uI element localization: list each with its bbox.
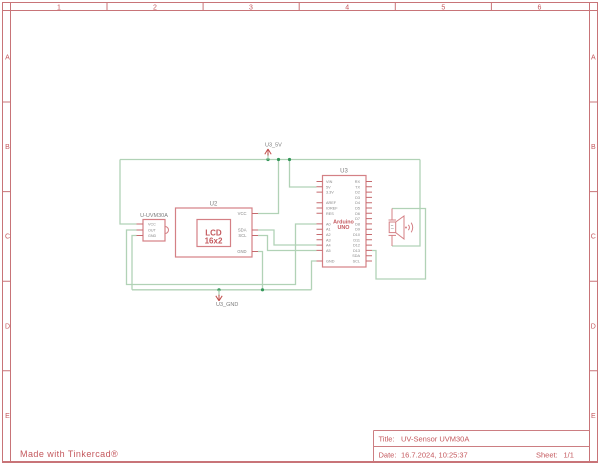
wire rail to U1 VCC: [120, 160, 137, 225]
svg-text:U3: U3: [340, 169, 348, 175]
svg-text:1: 1: [57, 5, 61, 12]
svg-text:D12: D12: [353, 244, 360, 248]
svg-text:D8: D8: [355, 222, 360, 226]
wire U1 GND to GND rail: [132, 236, 137, 290]
svg-text:3: 3: [249, 5, 253, 12]
wire speaker top pin to U3 D13: [372, 209, 426, 280]
svg-text:GND: GND: [237, 249, 246, 254]
svg-text:RES: RES: [326, 212, 334, 216]
LCD U2 (LCD 16x2): [176, 202, 259, 258]
svg-text:D5: D5: [355, 207, 360, 211]
svg-text:5: 5: [441, 5, 445, 12]
svg-text:A: A: [5, 55, 10, 62]
U3 right pin labels: [352, 180, 360, 264]
svg-text:SDA: SDA: [238, 228, 247, 233]
svg-text:C: C: [591, 234, 596, 241]
svg-text:E: E: [5, 413, 10, 420]
wire U3 GND to GND rail: [312, 261, 317, 290]
svg-text:A2: A2: [326, 233, 331, 237]
junction node on 5V rail at power arrow: [266, 158, 269, 161]
svg-text:Title:: Title:: [379, 435, 395, 444]
svg-text:U2: U2: [210, 202, 218, 208]
U1 body: [143, 220, 165, 242]
junction node on GND rail at ground arrow: [217, 288, 220, 291]
U3 right pin leads: [366, 182, 372, 262]
svg-text:D: D: [5, 323, 10, 330]
wire U2 SDA to U3 A4: [258, 230, 317, 245]
svg-text:1/1: 1/1: [564, 451, 574, 460]
svg-text:2: 2: [153, 5, 157, 12]
svg-text:D3: D3: [355, 196, 360, 200]
svg-text:C: C: [5, 234, 10, 241]
U3 left pin leads: [317, 182, 323, 262]
svg-text:16.7.2024, 10:25:37: 16.7.2024, 10:25:37: [401, 451, 468, 460]
svg-text:D13: D13: [353, 249, 360, 253]
svg-text:6: 6: [537, 5, 541, 12]
wire rail to U3 5V: [290, 160, 317, 188]
svg-text:SCL: SCL: [353, 260, 360, 264]
svg-text:Date:: Date:: [379, 451, 397, 460]
wire GND rail: [132, 289, 312, 291]
junction node on 5V rail at U2 VCC drop: [277, 158, 280, 161]
svg-text:A5: A5: [326, 249, 331, 253]
svg-text:IOREF: IOREF: [326, 207, 338, 211]
svg-text:D11: D11: [353, 238, 360, 242]
junction node on 5V rail at U3 5V drop: [288, 158, 291, 161]
svg-text:D6: D6: [355, 212, 360, 216]
svg-text:5V: 5V: [326, 185, 331, 189]
wire U1 OUT to U3 A0: [127, 224, 317, 285]
svg-text:D: D: [591, 323, 596, 330]
svg-text:VCC: VCC: [238, 211, 247, 216]
wire 5V rail: [120, 159, 420, 161]
svg-text:GND: GND: [148, 234, 157, 238]
U2 pin leads VCC/SDA/SCL/GND: [252, 214, 258, 252]
U3 left pin labels: [326, 180, 338, 264]
junction node on GND rail at U2 GND drop: [261, 288, 264, 291]
svg-text:UNO: UNO: [338, 225, 350, 231]
svg-text:GND: GND: [326, 260, 335, 264]
svg-text:U-UVM30A: U-UVM30A: [140, 213, 168, 219]
svg-text:D7: D7: [355, 217, 360, 221]
U1 pin leads VCC/OUT/GND: [137, 224, 144, 236]
wire rail to U2 VCC: [258, 160, 279, 214]
U3 body: [323, 176, 367, 268]
svg-text:16x2: 16x2: [205, 237, 223, 246]
svg-text:TX: TX: [355, 185, 360, 189]
svg-text:A4: A4: [326, 244, 331, 248]
svg-text:OUT: OUT: [148, 229, 157, 233]
U1 pin labels: [148, 223, 157, 239]
svg-text:SDA: SDA: [352, 254, 360, 258]
svg-text:SCL: SCL: [238, 233, 247, 238]
U2 pin labels: [237, 211, 247, 254]
svg-text:3.3V: 3.3V: [326, 191, 334, 195]
svg-text:4: 4: [345, 5, 349, 12]
svg-text:A: A: [591, 55, 596, 62]
svg-text:A1: A1: [326, 228, 331, 232]
UV sensor U1 (U-UVM30A): [137, 213, 169, 241]
svg-text:D4: D4: [355, 201, 360, 205]
svg-text:A3: A3: [326, 238, 331, 242]
wire rail to speaker bottom pin: [392, 160, 420, 247]
svg-text:D9: D9: [355, 228, 360, 232]
svg-text:D2: D2: [355, 191, 360, 195]
svg-text:RX: RX: [355, 180, 361, 184]
svg-text:U3_GND: U3_GND: [216, 302, 238, 308]
title block: [374, 431, 590, 462]
svg-text:VCC: VCC: [148, 223, 156, 227]
U2 body: [176, 208, 253, 257]
ground symbol U3_GND: [216, 290, 239, 308]
Arduino U3: [317, 169, 373, 268]
svg-text:UV-Sensor UVM30A: UV-Sensor UVM30A: [401, 435, 469, 444]
svg-text:D10: D10: [353, 233, 360, 237]
wire U2 SCL to U3 A5: [258, 236, 317, 251]
svg-text:Made with Tinkercad®: Made with Tinkercad®: [20, 449, 118, 459]
power symbol U3_5V: [265, 143, 282, 160]
svg-text:AREF: AREF: [326, 201, 337, 205]
svg-text:B: B: [5, 144, 10, 151]
svg-text:E: E: [591, 413, 596, 420]
svg-text:B: B: [591, 144, 596, 151]
svg-text:U3_5V: U3_5V: [265, 143, 282, 149]
svg-text:A0: A0: [326, 222, 331, 226]
svg-text:Sheet:: Sheet:: [536, 451, 558, 460]
speaker: [389, 209, 413, 247]
wire U2 GND to GND rail: [258, 252, 263, 290]
svg-text:VIN: VIN: [326, 180, 333, 184]
